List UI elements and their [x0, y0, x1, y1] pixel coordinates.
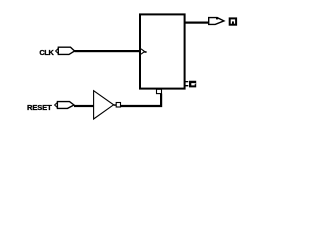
- inverter U2: [94, 91, 114, 119]
- wire inverter output to clear input: [121, 94, 163, 108]
- inverter output bubble (square): [114, 103, 121, 108]
- label RESET: [27, 103, 52, 112]
- svg-text:RESET: RESET: [27, 103, 52, 112]
- clock input chevron on U1: [141, 49, 147, 54]
- label CLK: [39, 48, 54, 57]
- input terminal RESET: [55, 102, 74, 109]
- wire CLK to flip-flop clock pin: [75, 50, 140, 52]
- label Q (net name box): [230, 18, 236, 24]
- wire RESET to inverter: [74, 105, 94, 107]
- inverted clear input square on U1 bottom: [157, 89, 162, 93]
- flip-flop U1 body: [140, 14, 185, 88]
- svg-text:CLK: CLK: [39, 48, 54, 57]
- output terminal Q: [209, 17, 224, 24]
- input terminal CLK: [56, 47, 75, 54]
- pin label QB on U1 bottom right: [185, 81, 197, 88]
- wire Q output from U1: [185, 22, 209, 24]
